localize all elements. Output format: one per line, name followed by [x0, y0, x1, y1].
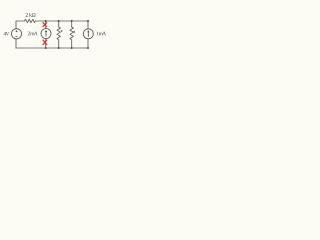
junction dot bottom R3 [71, 47, 73, 49]
label 2 kohm [26, 13, 36, 17]
tiny mark near R3 [73, 31, 75, 33]
junction dot bottom R2 [58, 47, 60, 49]
label 1 mA [96, 32, 106, 36]
junction dot top 2mA [45, 20, 47, 22]
red X mark upper (deactivated branch) [43, 22, 47, 27]
wire bottom rail [16, 47, 88, 49]
resistor R2 vertical [57, 27, 60, 40]
voltage source V1 minus sign [16, 35, 18, 37]
label 4 V [4, 32, 10, 36]
current source I1 arrow [45, 31, 47, 36]
wire left branch [15, 21, 17, 48]
junction dot bottom 2mA [45, 47, 47, 49]
current source I2 arrow [87, 32, 89, 37]
wire right branch [87, 21, 89, 48]
junction dot top right corner [87, 20, 89, 22]
current source I1 2mA circle [41, 29, 51, 39]
tiny mark near R2 [61, 30, 63, 32]
voltage source V1 circle [11, 29, 21, 39]
voltage source V1 plus sign [16, 30, 18, 32]
resistor R1 2kohm horizontal [25, 19, 36, 22]
wire R3 branch [71, 21, 73, 48]
wire top rail [16, 20, 88, 22]
background [0, 0, 120, 69]
red X mark lower (deactivated branch) [43, 40, 47, 45]
current source I2 1mA circle [83, 29, 93, 39]
resistor R3 vertical [70, 27, 73, 40]
wire 2mA branch [45, 21, 47, 48]
junction dot bottom right corner [87, 47, 89, 49]
junction dot top R3 [71, 20, 73, 22]
label 2 mA [28, 32, 38, 36]
wire R2 branch [58, 21, 60, 48]
junction dot top R2 [58, 20, 60, 22]
